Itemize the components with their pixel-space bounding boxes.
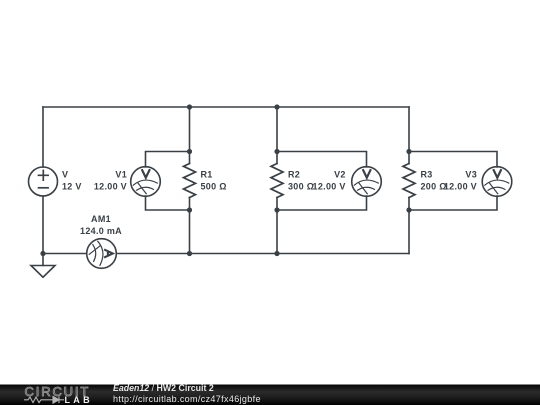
resistor R3 xyxy=(403,164,415,198)
footer bar xyxy=(0,385,540,405)
node R1 top xyxy=(187,149,192,154)
voltmeter V1 xyxy=(131,167,161,197)
node R1 bottom xyxy=(187,207,192,212)
wire V1 top connection xyxy=(146,152,190,168)
wire R1 branch drop xyxy=(189,107,191,164)
svg-text:12 V: 12 V xyxy=(62,182,82,192)
wire V2 top connection xyxy=(277,152,367,168)
node R3 top xyxy=(406,149,411,154)
ground xyxy=(31,254,55,278)
node top bus R2 branch xyxy=(274,104,279,109)
label V3 12.00 V xyxy=(444,170,477,192)
svg-text:LAB: LAB xyxy=(65,395,93,405)
label V value 12 V xyxy=(62,170,82,192)
node R2 bottom xyxy=(274,207,279,212)
voltmeter V2 xyxy=(352,167,382,197)
wire V3 bottom connection xyxy=(409,196,497,210)
ammeter AM1 xyxy=(87,239,117,269)
wire V2 bottom connection xyxy=(277,196,367,210)
svg-text:R3: R3 xyxy=(421,170,433,180)
svg-text:http://circuitlab.com/cz47fx46: http://circuitlab.com/cz47fx46jgbfe xyxy=(113,394,261,404)
wire left drop from top bus to V source xyxy=(42,107,44,167)
svg-text:V2: V2 xyxy=(334,170,346,180)
voltmeter V3 xyxy=(482,167,512,197)
node R3 bottom xyxy=(406,207,411,212)
label R3 200 ohm xyxy=(421,170,447,192)
svg-text:R1: R1 xyxy=(201,170,213,180)
label V1 12.00 V xyxy=(94,170,127,192)
resistor R2 xyxy=(271,164,283,198)
svg-text:12.00 V: 12.00 V xyxy=(313,182,346,192)
label V2 12.00 V xyxy=(313,170,346,192)
svg-text:200 Ω: 200 Ω xyxy=(421,182,447,192)
wire V3 top connection xyxy=(409,152,497,168)
wire top bus xyxy=(43,106,409,108)
node top bus R1 branch xyxy=(187,104,192,109)
svg-text:V: V xyxy=(62,170,68,180)
node R2 top xyxy=(274,149,279,154)
label AM1 124.0 mA xyxy=(80,214,122,236)
svg-text:12.00 V: 12.00 V xyxy=(444,182,477,192)
svg-text:12.00 V: 12.00 V xyxy=(94,182,127,192)
node R1 at bottom bus xyxy=(187,251,192,256)
wire R2 bottom to bus xyxy=(276,198,278,254)
logo wire resistor diode glyph xyxy=(24,396,64,403)
svg-text:300 Ω: 300 Ω xyxy=(288,182,314,192)
svg-text:V3: V3 xyxy=(465,170,477,180)
svg-text:R2: R2 xyxy=(288,170,300,180)
svg-text:500 Ω: 500 Ω xyxy=(201,182,227,192)
resistor R1 xyxy=(184,164,196,198)
node junction at ground xyxy=(40,251,45,256)
svg-text:AM1: AM1 xyxy=(91,214,111,224)
svg-text:Eaden12 / HW2 Circuit 2: Eaden12 / HW2 Circuit 2 xyxy=(113,383,214,393)
svg-text:124.0 mA: 124.0 mA xyxy=(80,226,122,236)
wire below V source xyxy=(42,196,44,254)
wire R1 bottom to bus xyxy=(189,198,191,254)
wire V1 bottom connection xyxy=(146,196,190,210)
wire R3 bottom to bus corner xyxy=(408,198,410,254)
voltage source V xyxy=(29,167,58,196)
label R1 500 ohm xyxy=(201,170,227,192)
wire bottom bus right segment xyxy=(116,253,409,255)
wire bottom bus left segment to ammeter xyxy=(43,253,87,255)
label R2 300 ohm xyxy=(288,170,314,192)
node R2 at bottom bus xyxy=(274,251,279,256)
svg-text:V1: V1 xyxy=(115,170,127,180)
wire R2 branch drop xyxy=(276,107,278,164)
wire R3 branch drop from top bus corner xyxy=(408,107,410,164)
